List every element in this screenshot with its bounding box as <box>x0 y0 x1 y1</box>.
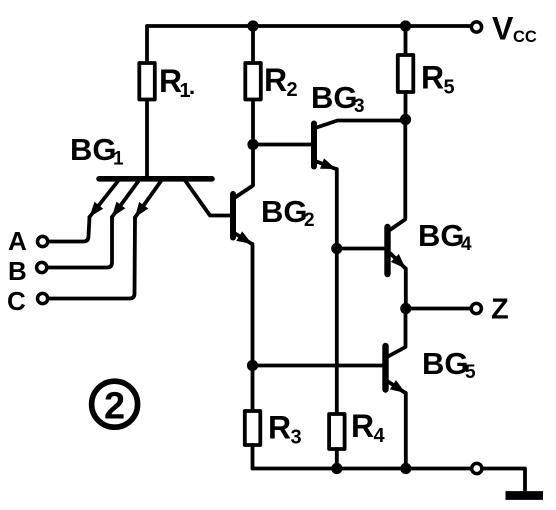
node dot BG3 emitter / BG4 base <box>331 243 342 254</box>
transistor BG4 emitter <box>391 254 406 269</box>
node dot BG2 emitter / R3 / BG5 base <box>247 360 258 371</box>
resistor R2 <box>245 26 260 145</box>
label R4 <box>351 408 386 447</box>
wire input B to emitter 2 <box>47 217 112 268</box>
svg-text:4: 4 <box>374 425 386 447</box>
node dot R5 bottom / BG3 collector / BG4 collector <box>400 114 411 125</box>
transistor BG2 base bar <box>230 194 236 238</box>
svg-text:.: . <box>189 74 195 99</box>
svg-text:BG: BG <box>70 132 117 167</box>
wire BG4 emitter to Z node <box>404 269 408 309</box>
transistor BG3 base bar <box>311 124 317 167</box>
transistor BG1 emitter 1 <box>90 181 119 217</box>
label Vcc <box>492 11 537 47</box>
terminal C <box>38 293 48 303</box>
resistor R5 <box>398 26 414 120</box>
svg-text:BG: BG <box>422 346 469 381</box>
svg-text:B: B <box>8 256 27 286</box>
svg-text:R: R <box>268 410 291 446</box>
transistor BG3 emitter <box>317 162 337 170</box>
node dot BG2 collector / R2 <box>247 139 258 150</box>
svg-text:3: 3 <box>291 427 302 449</box>
transistor BG1 emitter 3 <box>135 181 161 218</box>
resistor R3 <box>245 366 260 469</box>
label R3 <box>268 410 302 449</box>
svg-text:1: 1 <box>113 149 124 170</box>
terminal A <box>38 236 48 246</box>
wire Z node to terminal <box>406 307 471 311</box>
label BG5 <box>422 346 476 383</box>
transistor BG4 base bar <box>384 227 390 274</box>
svg-text:C: C <box>7 286 26 316</box>
node dot Z <box>400 303 411 314</box>
svg-text:5: 5 <box>465 362 476 383</box>
wire node to BG5 base <box>253 364 383 368</box>
transistor BG5 base bar <box>382 346 388 390</box>
terminal Vcc <box>471 22 481 32</box>
wire BG5 emitter to ground rail <box>404 393 408 469</box>
label R5 <box>421 60 455 99</box>
label BG1 <box>70 132 124 170</box>
svg-text:2: 2 <box>104 386 125 428</box>
svg-text:3: 3 <box>354 96 365 117</box>
transistor BG5 collector <box>388 309 406 357</box>
wire input C to emitter 3 <box>48 218 135 299</box>
resistor R4 <box>329 249 345 469</box>
wire top Vcc rail <box>147 24 470 28</box>
wire BG1 collector to BG2 base <box>186 181 230 216</box>
ground <box>506 491 544 500</box>
svg-text:V: V <box>492 11 514 47</box>
svg-text:5: 5 <box>444 77 455 99</box>
transistor BG4 collector <box>391 120 406 230</box>
wire rail to ground <box>483 469 525 492</box>
svg-text:R: R <box>351 408 374 444</box>
svg-text:BG: BG <box>311 80 358 115</box>
transistor BG2 emitter <box>235 234 252 245</box>
svg-text:A: A <box>8 226 27 256</box>
node dot R2/rail <box>247 20 258 31</box>
label BG3 <box>311 80 365 117</box>
svg-text:Z: Z <box>491 294 509 326</box>
label R2 <box>264 62 298 101</box>
svg-text:2: 2 <box>287 79 298 101</box>
wire input A to emitter 1 <box>48 217 90 242</box>
wire BG2 emitter down <box>251 244 255 366</box>
label R1 <box>159 63 195 102</box>
svg-text:BG: BG <box>261 194 308 229</box>
svg-text:2: 2 <box>304 210 315 231</box>
transistor BG2 collector <box>235 145 253 198</box>
resistor R1 <box>139 26 155 177</box>
terminal Z <box>471 303 481 313</box>
svg-text:BG: BG <box>418 218 465 253</box>
transistor BG5 emitter <box>388 382 406 394</box>
transistor BG3 collector wire to R5 node <box>317 121 406 128</box>
svg-text:R: R <box>264 62 287 98</box>
wire BG3 emitter down to BG4 base node <box>335 169 339 249</box>
transistor BG1 emitter 2 <box>112 181 139 217</box>
node dot R4 / rail <box>331 463 342 474</box>
wire R2 node to BG3 base <box>253 143 311 147</box>
wire BG3 emitter node to BG4 base <box>337 247 384 251</box>
svg-text:4: 4 <box>461 234 472 255</box>
node dot BG5 emitter / rail <box>400 463 411 474</box>
svg-text:R: R <box>421 60 444 96</box>
terminal ground rail <box>472 463 482 473</box>
transistor BG1 multi-emitter base bar <box>99 176 212 182</box>
wire bottom ground rail <box>253 467 471 471</box>
svg-text:CC: CC <box>513 28 537 46</box>
figure number circled 2 <box>92 381 138 427</box>
node dot R5/rail <box>400 20 411 31</box>
terminal B <box>37 262 47 272</box>
label BG4 <box>418 218 472 255</box>
label BG2 <box>261 194 315 231</box>
